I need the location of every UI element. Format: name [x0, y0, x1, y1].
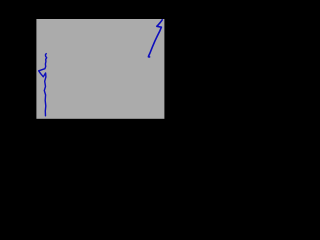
black background [0, 0, 200, 131]
left scribble stroke [39, 54, 47, 116]
gray canvas [36, 19, 164, 119]
right scribble stroke [148, 20, 162, 57]
